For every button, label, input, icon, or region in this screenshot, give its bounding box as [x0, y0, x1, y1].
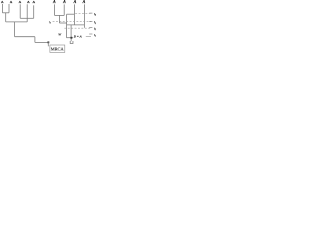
wire tip1 left tree — [1, 4, 3, 13]
svg-text:t2: t2 — [94, 26, 97, 31]
wire join bar middle — [59, 22, 66, 24]
svg-text:t4: t4 — [94, 12, 97, 17]
svg-text:t3: t3 — [49, 20, 52, 25]
wire arrow shaft — [70, 39, 72, 42]
wire tipA4 right tree — [83, 4, 85, 27]
svg-text:A: A — [33, 0, 36, 4]
svg-text:A: A — [52, 0, 56, 4]
svg-text:A: A — [62, 0, 66, 4]
dashed time line t2 — [64, 27, 90, 29]
wire drop to MRCA box — [47, 42, 49, 46]
wire tip2 left tree — [8, 4, 10, 13]
node junction dot right — [70, 37, 72, 39]
MRCA box — [50, 45, 65, 52]
wire tip3 left tree — [19, 4, 21, 18]
wire formula dash — [86, 36, 91, 38]
tick t2 — [89, 27, 92, 29]
node junction dot left — [47, 41, 49, 43]
tick t4 — [89, 12, 92, 14]
wire stem (A1,A2) — [58, 15, 60, 23]
svg-text:A: A — [10, 0, 13, 4]
dashed time line t4 — [75, 12, 90, 14]
wire tip5 left tree — [33, 5, 35, 18]
svg-text:t1: t1 — [94, 33, 96, 38]
svg-text:B = A: B = A — [74, 34, 83, 38]
wire tipA2 right tree — [63, 4, 65, 15]
wire inner lineage vertical — [66, 14, 68, 38]
tick t3 — [89, 20, 92, 22]
wire elbow from tipA3 — [67, 13, 75, 15]
wire join bar (1,2) — [2, 12, 9, 14]
wire connector to MRCA — [35, 41, 48, 43]
dashed time line t3 — [53, 21, 91, 23]
wire stem below join — [70, 25, 72, 37]
wire stem (1,2) — [5, 13, 7, 22]
wire root bar right tree — [66, 37, 73, 39]
wire root stem left tree — [14, 22, 16, 37]
svg-text:A: A — [82, 0, 86, 4]
wire tip4 left tree — [26, 4, 28, 22]
wire join bar lower — [6, 21, 28, 23]
wire root elbow vertical — [34, 37, 36, 43]
tick t1 — [89, 33, 92, 35]
arrowhead open U — [70, 41, 73, 44]
svg-text:A: A — [1, 0, 4, 4]
svg-text:t3: t3 — [94, 20, 97, 25]
svg-text:W: W — [58, 33, 62, 37]
wire tipA1 right tree — [54, 4, 56, 15]
wire tipA3 right tree — [73, 4, 75, 25]
svg-text:MRCA: MRCA — [51, 46, 65, 51]
wire join bar (3,4,5) — [20, 17, 34, 19]
wire root elbow horizontal — [15, 36, 35, 38]
svg-text:A: A — [19, 0, 22, 4]
wire join bar (A3,A4) — [67, 24, 85, 26]
svg-text:A: A — [27, 0, 30, 4]
wire join bar (A1,A2) — [55, 14, 65, 16]
svg-text:A: A — [73, 0, 77, 4]
